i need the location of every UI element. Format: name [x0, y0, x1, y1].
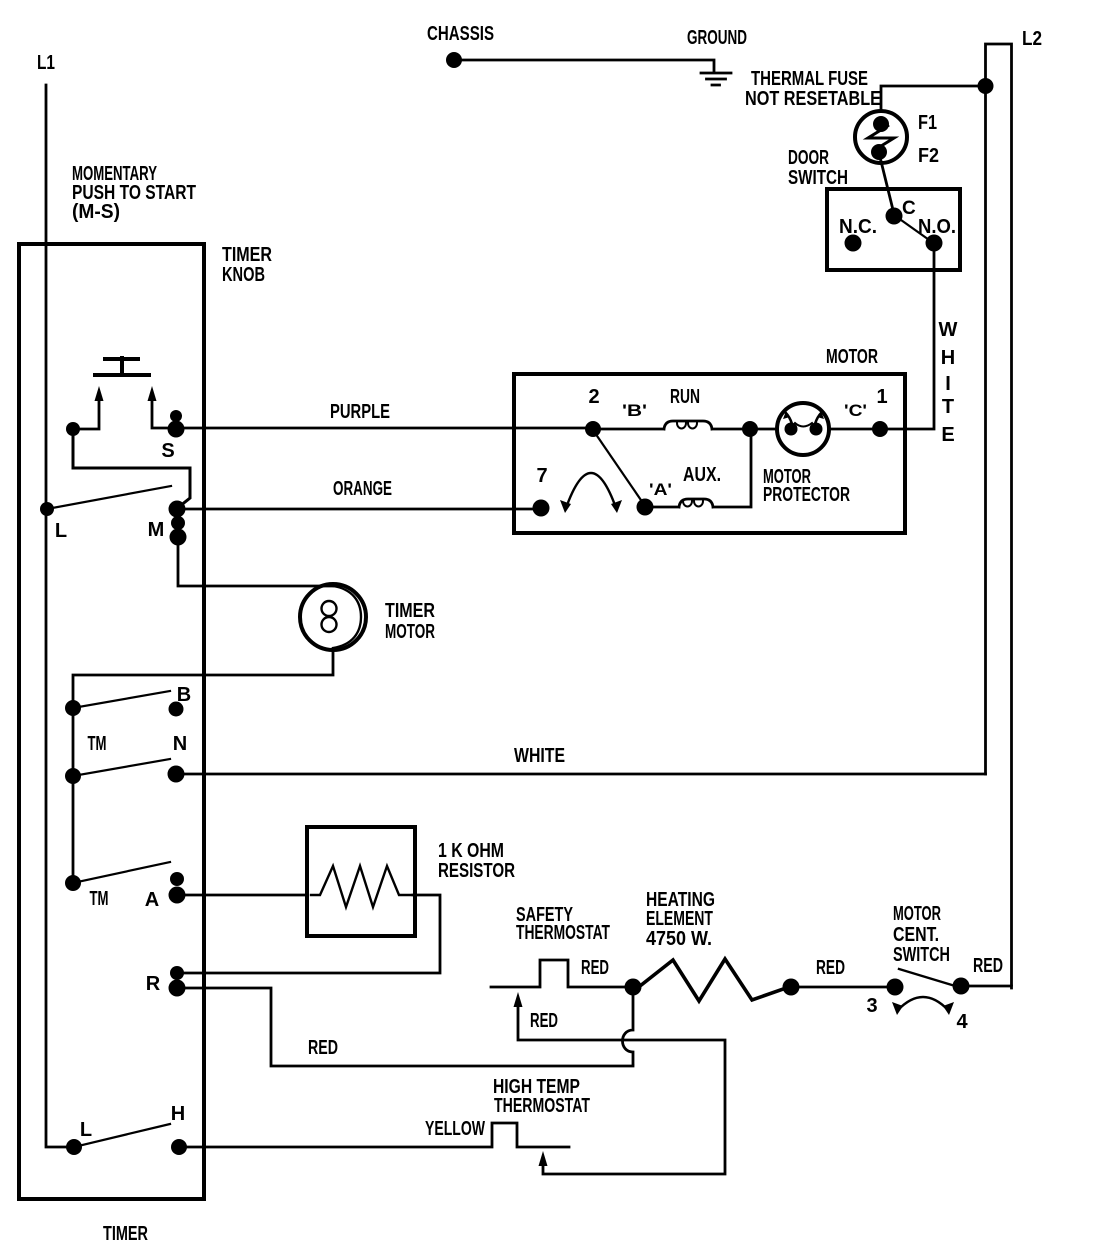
wire RED timer R to heater junction — [180, 988, 633, 1066]
svg-text:TIMER: TIMER — [385, 600, 435, 622]
timer pin S — [170, 410, 182, 422]
svg-text:N.O.: N.O. — [918, 216, 956, 238]
svg-text:RED: RED — [581, 957, 609, 979]
wire fuse F2 to door switch C — [879, 153, 894, 214]
svg-text:RED: RED — [816, 957, 845, 979]
motor cent switch arc — [898, 997, 948, 1010]
wire S contact path down to M — [73, 434, 190, 506]
wire TM to TM — [72, 708, 75, 776]
svg-text:NOT RESETABLE: NOT RESETABLE — [745, 88, 881, 110]
node L2 bus — [986, 44, 1012, 985]
svg-text:RUN: RUN — [670, 386, 700, 408]
node L1 — [46, 85, 66, 1147]
svg-text:PURPLE: PURPLE — [330, 401, 390, 423]
svg-text:A: A — [145, 889, 159, 911]
svg-text:'A': 'A' — [649, 480, 672, 499]
thermal fuse F1-F2 — [855, 111, 907, 163]
wire YELLOW timer H to high temp thermostat — [183, 1123, 569, 1147]
fuse bolt — [868, 125, 894, 151]
svg-text:GROUND: GROUND — [687, 27, 747, 49]
timer pin B — [169, 702, 184, 717]
wire thermal fuse to L2 bus — [881, 86, 984, 111]
svg-text:R: R — [146, 973, 161, 995]
svg-text:L: L — [80, 1119, 92, 1141]
svg-text:DOOR: DOOR — [788, 147, 829, 169]
motor protector pins — [785, 423, 798, 436]
timer blade TM to N — [73, 759, 170, 776]
timer pin N — [168, 766, 185, 783]
junction heater left — [625, 979, 642, 996]
svg-text:RED: RED — [308, 1037, 338, 1059]
svg-text:MOTOR: MOTOR — [893, 903, 941, 925]
cent switch pin 3 — [887, 979, 904, 996]
svg-text:THERMOSTAT: THERMOSTAT — [494, 1095, 590, 1117]
arrowhead right push — [148, 386, 157, 401]
svg-text:TM: TM — [90, 888, 109, 910]
protector hook arrows — [783, 411, 790, 419]
svg-text:T: T — [942, 396, 954, 418]
svg-text:3: 3 — [866, 995, 877, 1017]
svg-text:SWITCH: SWITCH — [893, 944, 950, 966]
door switch pin N.O. — [926, 235, 943, 252]
motor pin 7 — [533, 500, 550, 517]
push button arrow stems — [78, 400, 170, 429]
svg-text:THERMOSTAT: THERMOSTAT — [516, 922, 610, 944]
door switch pin N.C. — [845, 235, 862, 252]
svg-text:CENT.: CENT. — [893, 924, 939, 946]
svg-text:ORANGE: ORANGE — [333, 478, 392, 500]
wire PURPLE timer S to motor 2 — [176, 427, 593, 430]
timer pin TM2 — [65, 768, 81, 784]
fuse pin F2 — [871, 144, 887, 160]
svg-text:TIMER: TIMER — [222, 244, 272, 266]
svg-text:RED: RED — [973, 955, 1003, 977]
svg-text:PROTECTOR: PROTECTOR — [763, 484, 850, 506]
door switch pin C — [886, 208, 903, 225]
ground — [701, 73, 731, 85]
motor aux winding — [652, 431, 751, 507]
timer pin H — [171, 1139, 187, 1155]
heating element — [640, 959, 786, 1001]
wire ORANGE timer M to motor 7 — [180, 508, 538, 511]
svg-text:RED: RED — [530, 1010, 558, 1032]
arrowhead high temp thermostat — [539, 1151, 548, 1166]
svg-text:S: S — [161, 440, 174, 462]
motor pin 1 — [872, 421, 888, 437]
timer pin TM — [65, 700, 81, 716]
arrowhead left push — [95, 386, 104, 401]
motor box — [514, 374, 905, 533]
junction push left contact — [66, 422, 80, 436]
timer blade TM to A — [73, 862, 170, 883]
motor blade 2 to A — [593, 430, 645, 506]
svg-text:7: 7 — [536, 465, 547, 487]
svg-text:MOTOR: MOTOR — [826, 346, 878, 368]
svg-text:L2: L2 — [1022, 28, 1042, 50]
motor pin 2 — [585, 421, 601, 437]
safety thermostat — [491, 960, 630, 987]
push button M-S — [95, 358, 149, 375]
svg-text:RESISTOR: RESISTOR — [438, 860, 515, 882]
svg-text:W: W — [939, 319, 958, 341]
svg-text:M: M — [148, 519, 165, 541]
wire N.O. down to motor C (WHITE) — [886, 246, 934, 429]
svg-text:2: 2 — [588, 386, 599, 408]
svg-text:L: L — [55, 520, 67, 542]
timer motor TM — [300, 584, 366, 650]
timer pin A — [170, 872, 184, 886]
timer blade L to M — [47, 486, 171, 509]
heater right terminal — [783, 979, 800, 996]
junction run-aux — [742, 421, 758, 437]
svg-text:MOTOR: MOTOR — [385, 621, 435, 643]
arrowhead safety thermostat — [514, 992, 523, 1007]
timer pin TM3 — [65, 875, 81, 891]
svg-text:B: B — [177, 684, 191, 706]
wire protector to motor 1 and out — [829, 428, 886, 431]
svg-text:WHITE: WHITE — [514, 745, 565, 767]
svg-text:C: C — [902, 198, 916, 219]
svg-text:(M-S): (M-S) — [72, 201, 120, 223]
svg-text:'C': 'C' — [844, 401, 867, 420]
svg-text:TIMER: TIMER — [103, 1223, 148, 1245]
svg-text:THERMAL FUSE: THERMAL FUSE — [751, 68, 868, 90]
timer blade L to H — [74, 1124, 170, 1147]
arrowhead cent right — [943, 1002, 954, 1015]
arrowhead arc7 right — [611, 500, 622, 513]
timer pin M stack — [169, 501, 186, 518]
arrowhead arc7 left — [560, 500, 571, 513]
junction L1-L — [40, 502, 54, 516]
door switch box — [827, 189, 960, 270]
junction L2 fuse wire — [978, 78, 994, 94]
svg-text:1: 1 — [876, 386, 887, 408]
resistor R1 box — [307, 827, 415, 936]
svg-text:4: 4 — [956, 1011, 968, 1033]
svg-text:H: H — [941, 347, 955, 369]
timer blade TM to B — [73, 691, 170, 708]
wire switch 4 to L2 — [964, 986, 1012, 988]
wire timer motor to TM contact — [73, 650, 333, 702]
wire resistor to timer R — [182, 895, 440, 973]
wire M to timer motor — [178, 541, 333, 586]
svg-text:H: H — [171, 1103, 185, 1125]
cent switch pin 4 — [953, 978, 970, 995]
svg-text:4750 W.: 4750 W. — [646, 928, 712, 950]
wire chassis to ground — [460, 60, 714, 71]
svg-text:E: E — [941, 424, 954, 446]
timer box — [19, 244, 204, 1199]
svg-text:KNOB: KNOB — [222, 264, 265, 286]
svg-text:YELLOW: YELLOW — [425, 1118, 485, 1140]
door switch blade C to N.O. — [894, 215, 932, 242]
wire TM to TM lower — [72, 776, 75, 883]
svg-text:I: I — [945, 373, 951, 395]
svg-text:F2: F2 — [918, 145, 939, 167]
svg-text:TM: TM — [88, 733, 107, 755]
timer pin L bottom — [66, 1139, 82, 1155]
node chassis — [446, 52, 462, 68]
svg-text:'B': 'B' — [622, 401, 647, 420]
timer pin R — [170, 966, 184, 980]
svg-text:L1: L1 — [37, 52, 55, 74]
wire hop over red wire — [623, 990, 634, 1064]
resistor R1 element — [311, 866, 411, 907]
safety thermostat arrow stem — [518, 1006, 725, 1174]
motor pin A — [637, 499, 654, 516]
wire timer A to resistor — [181, 894, 307, 897]
svg-text:SWITCH: SWITCH — [788, 167, 848, 189]
svg-text:N: N — [173, 733, 187, 755]
svg-text:ELEMENT: ELEMENT — [646, 908, 713, 930]
motor cent switch blade — [899, 969, 952, 985]
motor run winding — [593, 421, 777, 429]
svg-text:F1: F1 — [918, 112, 937, 134]
svg-text:CHASSIS: CHASSIS — [427, 23, 494, 45]
fuse pin F1 — [873, 116, 889, 132]
motor centrifugal arc near 7 — [566, 473, 616, 508]
wire WHITE timer N to L2 — [180, 773, 986, 776]
wire heater to switch 3 — [795, 986, 892, 989]
svg-text:N.C.: N.C. — [839, 216, 877, 238]
motor protector U1 — [777, 403, 829, 455]
svg-text:AUX.: AUX. — [683, 464, 721, 486]
arrowhead cent left — [892, 1002, 903, 1015]
svg-text:1 K OHM: 1 K OHM — [438, 840, 504, 862]
